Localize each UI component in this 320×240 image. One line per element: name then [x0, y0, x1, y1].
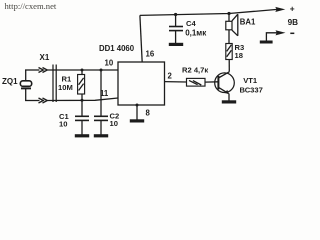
svg-text:9В: 9В — [288, 18, 299, 27]
terminal -9V ground symbol — [260, 41, 273, 44]
connector X1 socket bars — [53, 65, 56, 103]
svg-text:ZQ1: ZQ1 — [2, 77, 18, 86]
svg-text:+: + — [290, 3, 295, 13]
svg-text:VT1: VT1 — [243, 76, 258, 85]
svg-text:http://cxem.net: http://cxem.net — [5, 1, 57, 11]
capacitor C4 — [169, 15, 183, 44]
svg-text:10: 10 — [105, 59, 114, 68]
ground under C4 — [169, 43, 183, 46]
svg-text:11: 11 — [100, 89, 109, 98]
ground under pin 8 — [130, 119, 144, 122]
wire top supply rail — [140, 9, 278, 15]
wire crystal top to connector X1 — [25, 69, 40, 71]
label minus — [290, 32, 294, 34]
wire pin 16 to +rail — [140, 15, 142, 62]
ground under emitter — [222, 100, 236, 103]
connector X1 plug arrows bottom — [39, 98, 48, 103]
IC DD1 4060 — [118, 62, 165, 105]
resistor R3 — [226, 44, 232, 72]
svg-text:DD1 4060: DD1 4060 — [99, 44, 135, 53]
connector X1 plug arrows top — [39, 68, 48, 73]
transistor VT1 — [215, 72, 235, 101]
junction dot R1 top — [81, 69, 84, 72]
svg-text:X1: X1 — [40, 53, 50, 62]
svg-text:16: 16 — [146, 50, 155, 59]
junction dot R1/C1 bottom — [81, 99, 84, 102]
capacitor C2 — [94, 70, 108, 135]
svg-text:BA1: BA1 — [240, 18, 256, 27]
terminal -9V arrow — [276, 30, 286, 35]
ground under C1 — [75, 134, 89, 137]
svg-text:0,1мк: 0,1мк — [185, 29, 207, 38]
svg-text:18: 18 — [235, 51, 243, 60]
svg-text:2: 2 — [168, 72, 173, 81]
junction dot speaker — [227, 12, 230, 15]
wire -9V terminal — [266, 33, 277, 41]
svg-text:R2 4,7к: R2 4,7к — [182, 65, 208, 74]
resistor R2 — [187, 78, 219, 86]
capacitor C1 — [75, 100, 89, 134]
svg-text:10M: 10M — [58, 83, 73, 92]
resistor R1 — [78, 70, 85, 100]
svg-text:8: 8 — [146, 109, 151, 118]
svg-text:10: 10 — [110, 119, 118, 128]
wire pin 2 to R2 — [165, 81, 187, 83]
speaker BA1 — [226, 14, 238, 44]
wire pin 8 to ground — [136, 105, 138, 120]
terminal +9V arrow — [275, 7, 285, 12]
junction dot pin 8 — [136, 104, 139, 107]
wire connector to R1 node (top) — [47, 69, 118, 71]
svg-text:ВС337: ВС337 — [240, 86, 263, 95]
crystal ZQ1 — [20, 70, 31, 101]
wire crystal bottom to connector X1 — [25, 100, 40, 102]
svg-text:C4: C4 — [186, 19, 196, 28]
junction dot C4 — [174, 13, 177, 16]
junction dot C2 top — [100, 69, 103, 72]
svg-text:10: 10 — [59, 120, 67, 129]
ground under C2 — [94, 134, 108, 137]
wire connector to IC pin 11 (bottom) — [47, 98, 118, 101]
